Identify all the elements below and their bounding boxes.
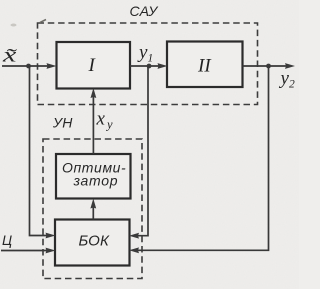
node on wire y2 <box>266 64 271 69</box>
label y1 <box>137 42 153 65</box>
svg-text:САУ: САУ <box>130 3 160 19</box>
wire xy from Оптимизатор up into block I <box>91 88 97 154</box>
wire feedback x into БОК (left upper) <box>30 66 56 238</box>
svg-text:x̃: x̃ <box>2 43 18 66</box>
wire feedback y2 into БОК (right lower) <box>129 66 269 253</box>
svg-text:x: x <box>96 109 106 130</box>
wire Ц into БОК (left lower) <box>1 248 56 254</box>
block I <box>57 42 131 89</box>
wire y1 from block I to block II <box>130 63 168 69</box>
node on wire y1 <box>147 64 152 69</box>
label x (input) <box>2 43 18 66</box>
dashed box УН (lower boundary) <box>43 139 142 279</box>
svg-text:у: у <box>105 118 113 132</box>
wire feedback y1 into БОК (right upper) <box>129 66 148 239</box>
label Ц <box>2 232 12 248</box>
dashed box CAY (outer system boundary) <box>38 23 258 105</box>
wire from БОК up into Оптимизатор <box>90 199 96 220</box>
svg-text:БОК: БОК <box>79 233 111 250</box>
scan smudge near top-left <box>11 20 47 27</box>
svg-text:УН: УН <box>52 115 73 131</box>
label CAY <box>130 3 160 19</box>
label xy <box>96 109 114 132</box>
svg-text:2: 2 <box>289 79 295 91</box>
block Оптимизатор <box>56 154 131 199</box>
svg-text:Ц: Ц <box>2 232 12 248</box>
svg-text:1: 1 <box>148 53 154 65</box>
svg-text:II: II <box>197 56 212 77</box>
wire input x into block I <box>2 63 57 69</box>
block II <box>167 42 243 88</box>
svg-text:y: y <box>279 68 290 89</box>
svg-text:затор: затор <box>73 173 119 189</box>
svg-text:y: y <box>137 42 148 63</box>
label УН <box>52 115 73 131</box>
node on input wire <box>26 64 31 69</box>
block БОК <box>55 220 130 266</box>
label y2 <box>279 68 296 91</box>
wire y2 output from block II <box>243 63 296 69</box>
